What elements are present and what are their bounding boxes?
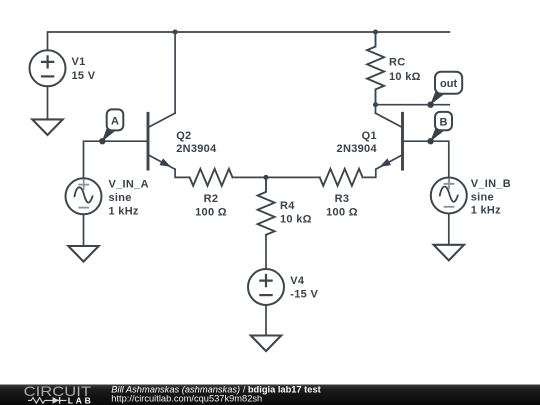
junction: node A flag attach <box>99 138 105 144</box>
svg-text:100 Ω: 100 Ω <box>326 207 358 219</box>
footer attribution text <box>111 384 320 403</box>
svg-text:Q2: Q2 <box>176 130 191 142</box>
svg-text:R2: R2 <box>204 193 219 205</box>
wire: Q2 emitter to R2 <box>175 169 190 177</box>
svg-text:A: A <box>111 116 119 128</box>
junction: node B flag attach <box>427 138 433 144</box>
wire: Q1 base to V_IN_B <box>403 141 449 177</box>
resistor R2 <box>190 169 233 186</box>
wire: R2 to center junction <box>232 176 266 178</box>
svg-text:15 V: 15 V <box>72 70 96 82</box>
label Q2 2N3904 <box>176 130 217 155</box>
junction: emitter bus node <box>264 175 269 180</box>
svg-text:V_IN_B: V_IN_B <box>471 178 511 190</box>
label R2 100 ohm <box>195 193 227 219</box>
resistor R4 <box>258 177 275 234</box>
footer bar <box>0 385 540 405</box>
svg-text:out: out <box>440 78 457 90</box>
resistor R3 <box>320 169 363 186</box>
svg-text:V1: V1 <box>72 56 86 68</box>
ground symbol under V1 <box>32 119 62 135</box>
svg-text:Q1: Q1 <box>362 130 377 142</box>
sine source V_IN_A <box>66 178 102 214</box>
svg-text:10 kΩ: 10 kΩ <box>389 71 421 83</box>
wire: center junction to R3 <box>266 176 320 178</box>
wire: V_IN_A to ground <box>83 214 85 246</box>
svg-text:sine: sine <box>471 191 494 203</box>
svg-text:10 kΩ: 10 kΩ <box>280 214 312 226</box>
transistor Q1 2N3904 (NPN, mirrored) <box>376 113 403 169</box>
label RC 10 kohm <box>389 56 421 83</box>
svg-text:RC: RC <box>389 56 406 68</box>
junction: top rail / RC <box>373 30 378 35</box>
label R3 100 ohm <box>326 193 358 219</box>
svg-text:2N3904: 2N3904 <box>337 143 378 155</box>
svg-text:100 Ω: 100 Ω <box>195 207 227 219</box>
transistor Q2 2N3904 (NPN) <box>148 113 175 169</box>
resistor RC <box>367 32 384 105</box>
svg-text:B: B <box>440 117 448 129</box>
voltage source V4 <box>248 269 284 305</box>
label V_IN_A sine 1 kHz <box>109 179 149 218</box>
svg-text:sine: sine <box>109 192 132 204</box>
svg-text:1 kHz: 1 kHz <box>471 205 501 217</box>
ground symbol under V4 <box>251 336 281 352</box>
wire: Q2 collector to top rail <box>174 32 176 113</box>
wire: R4 to V4 <box>265 235 267 269</box>
wire: Q2 base to V_IN_A <box>84 141 149 178</box>
label Q1 2N3904 <box>337 130 378 155</box>
svg-text:2N3904: 2N3904 <box>176 143 217 155</box>
svg-text:R4: R4 <box>280 200 295 212</box>
ground symbol under V_IN_B <box>434 245 464 261</box>
svg-text:V_IN_A: V_IN_A <box>109 179 149 191</box>
label V_IN_B sine 1 kHz <box>471 178 511 217</box>
svg-text:-15 V: -15 V <box>290 289 318 301</box>
CircuitLab logo <box>24 383 92 405</box>
label R4 10 kohm <box>280 200 312 226</box>
wire: top positive rail from V1 to right end <box>48 32 450 50</box>
junction: out flag attach <box>427 102 433 108</box>
wire: V_IN_B to ground <box>448 214 450 245</box>
wire: V1 negative lead to ground <box>47 86 49 119</box>
net flag out <box>430 72 462 105</box>
node B flag <box>430 112 452 142</box>
junction: RC bottom / Q1 collector / out <box>373 102 378 107</box>
sine source V_IN_B <box>431 178 467 214</box>
wire: V4 to ground <box>265 305 267 336</box>
value label V4 -15 V <box>290 275 318 301</box>
svg-text:1 kHz: 1 kHz <box>109 205 139 217</box>
voltage source V1 <box>30 50 66 86</box>
svg-text:V4: V4 <box>290 275 305 287</box>
svg-text:http://circuitlab.com/cqu537k9: http://circuitlab.com/cqu537k9m82sh <box>111 393 262 403</box>
junction: top rail / Q2 collector <box>173 30 178 35</box>
wire: Q1 collector to RC junction <box>375 105 377 114</box>
wire: R3 to Q1 emitter <box>365 169 376 177</box>
wire: out net <box>376 104 450 106</box>
svg-text:LAB: LAB <box>68 395 91 405</box>
ground symbol under V_IN_A <box>68 246 98 262</box>
svg-text:R3: R3 <box>335 193 350 205</box>
node A flag <box>102 109 123 141</box>
value label V1 15 V <box>72 56 96 82</box>
